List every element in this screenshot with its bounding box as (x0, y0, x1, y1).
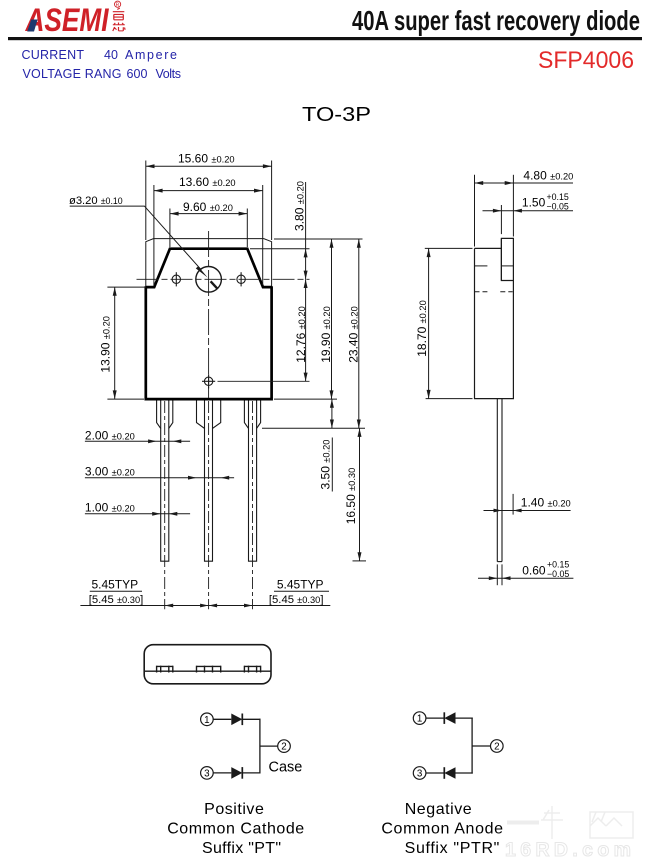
caption right (381, 801, 503, 857)
logo chinese chars (113, 8, 125, 31)
svg-text:2.00 ±0.20: 2.00 ±0.20 (85, 428, 135, 442)
diode D4 (443, 767, 445, 779)
svg-text:Ampere: Ampere (125, 48, 177, 62)
middle leg (197, 401, 221, 562)
side body outline (475, 238, 514, 398)
svg-text:12.76 ±0.20: 12.76 ±0.20 (294, 306, 308, 363)
logo ASEMI (25, 1, 121, 38)
body top extension right (250, 248, 310, 250)
shoulder extension line right (262, 427, 365, 429)
svg-text:R: R (116, 3, 120, 9)
svg-text:13.90 ±0.20: 13.90 ±0.20 (98, 316, 112, 373)
header rule (8, 37, 642, 40)
svg-text:2: 2 (494, 742, 499, 753)
dim 3.50 (331, 399, 333, 428)
watermark (507, 806, 633, 839)
caption left (167, 801, 304, 857)
svg-text:16RD.com: 16RD.com (505, 839, 633, 861)
mounting hole (196, 267, 222, 293)
svg-text:18.70 ±0.20: 18.70 ±0.20 (415, 300, 429, 357)
diode D1 (231, 714, 242, 726)
dim 5.45 pitch line (80, 605, 330, 607)
diode D2 (231, 767, 242, 779)
svg-text:[5.45 ±0.30]: [5.45 ±0.30] (269, 594, 324, 606)
leg tip extension right (353, 560, 367, 562)
svg-text:40A super fast recovery diode: 40A super fast recovery diode (352, 5, 640, 36)
wire D1 to bus (242, 718, 260, 720)
right leg (244, 401, 260, 562)
dim 1.40 (512, 494, 514, 515)
wire D4 to bus (456, 772, 473, 774)
dia label leader (70, 206, 218, 289)
svg-text:−0.05: −0.05 (547, 201, 569, 211)
dim 4.80 (475, 175, 574, 247)
svg-text:1: 1 (417, 714, 422, 725)
wire D2 to bus (242, 772, 260, 774)
svg-text:3: 3 (204, 768, 210, 779)
pin 3 circle (201, 767, 214, 780)
svg-text:3.00 ±0.20: 3.00 ±0.20 (85, 465, 135, 479)
svg-text:SFP4006: SFP4006 (538, 47, 634, 74)
dim 15.60 (146, 161, 272, 241)
dim 1.50 (500, 205, 502, 234)
pin 1 circle (413, 712, 426, 725)
svg-text:Positive: Positive (204, 801, 264, 818)
dim 13.90 left (107, 287, 145, 399)
svg-text:2: 2 (281, 742, 286, 753)
svg-text:−0.05: −0.05 (547, 569, 569, 579)
svg-text:9.60 ±0.20: 9.60 ±0.20 (183, 200, 233, 214)
svg-text:Negative: Negative (405, 801, 472, 818)
svg-text:Suffix "PTR": Suffix "PTR" (405, 840, 500, 857)
svg-text:TO-3P: TO-3P (302, 103, 371, 126)
svg-text:Suffix "PT": Suffix "PT" (202, 840, 281, 857)
current line (22, 48, 182, 81)
dim 0.60 (478, 564, 573, 585)
svg-text:0.60: 0.60 (522, 564, 546, 578)
dim 13.60 (154, 185, 263, 285)
wire pin1 to D1 (213, 718, 231, 720)
dim 3.80 (305, 182, 307, 279)
svg-text:1.40 ±0.20: 1.40 ±0.20 (521, 495, 571, 509)
bottom view pin 1 pad (157, 666, 173, 673)
dim 16.50 (359, 428, 361, 561)
svg-text:3.80 ±0.20: 3.80 ±0.20 (293, 181, 307, 231)
svg-text:CURRENT: CURRENT (22, 48, 85, 62)
svg-text:VOLTAGE RANG: VOLTAGE RANG (23, 67, 122, 81)
svg-text:1.50: 1.50 (522, 196, 546, 210)
svg-text:4.80 ±0.20: 4.80 ±0.20 (523, 169, 573, 183)
side internal lines (475, 266, 514, 292)
svg-text:+0.15: +0.15 (547, 559, 569, 569)
dim 12.76 (305, 279, 307, 381)
svg-text:600: 600 (127, 67, 148, 81)
svg-text:16.50 ±0.30: 16.50 ±0.30 (344, 468, 358, 525)
wire bus to pin2 (472, 745, 490, 747)
vertical centerline (208, 231, 210, 398)
svg-text:Volts: Volts (156, 67, 182, 81)
svg-text:40: 40 (104, 48, 118, 62)
diode D3 (443, 712, 445, 724)
body bottom extension right (274, 398, 337, 400)
svg-text:3.50 ±0.20: 3.50 ±0.20 (319, 440, 333, 490)
right pip hole (237, 272, 245, 286)
body outline thick (146, 249, 272, 399)
svg-text:1: 1 (204, 715, 209, 726)
anode bus (471, 718, 473, 774)
svg-text:23.40 ±0.20: 23.40 ±0.20 (346, 306, 360, 363)
svg-text:19.90 ±0.20: 19.90 ±0.20 (319, 306, 333, 363)
svg-text:Case: Case (269, 759, 303, 775)
svg-text:+0.15: +0.15 (547, 192, 569, 202)
left pip hole (172, 272, 180, 286)
wire pin1 to D3 (426, 717, 444, 719)
svg-text:1.00 ±0.20: 1.00 ±0.20 (85, 501, 135, 515)
pin 1 circle (201, 713, 214, 726)
svg-text:ø3.20 ±0.10: ø3.20 ±0.10 (69, 195, 123, 207)
cathode bus (259, 719, 261, 774)
pin 3 circle (413, 767, 426, 780)
svg-text:13.60 ±0.20: 13.60 ±0.20 (179, 175, 236, 189)
bottom view pin 3 pad (244, 666, 260, 673)
svg-text:15.60 ±0.20: 15.60 ±0.20 (178, 151, 235, 165)
pin 2 circle (491, 740, 504, 753)
svg-text:5.45TYP: 5.45TYP (277, 578, 324, 592)
dim 23.40 (358, 239, 360, 428)
svg-text:[5.45 ±0.30]: [5.45 ±0.30] (89, 594, 144, 606)
flange top extension line right (274, 238, 363, 240)
wire pin3 to D2 (213, 772, 231, 774)
horizontal centerline (137, 278, 310, 280)
wire bus to pin2 (260, 745, 278, 747)
svg-text:3: 3 (417, 769, 423, 780)
svg-text:5.45TYP: 5.45TYP (91, 578, 138, 592)
wire pin3 to D4 (426, 772, 444, 774)
dim 19.90 (331, 239, 333, 399)
side lead (497, 399, 502, 562)
bottom view pin 2 pad (197, 666, 221, 673)
left leg (157, 401, 173, 562)
svg-text:Common Cathode: Common Cathode (167, 821, 304, 838)
bottom pip hole (202, 374, 310, 388)
wire D3 to bus (456, 717, 473, 719)
dim 9.60 (170, 209, 247, 248)
svg-text:Common Anode: Common Anode (381, 821, 503, 838)
pin 2 circle (278, 740, 291, 753)
dim 18.70 (425, 248, 473, 398)
flange outline thin (146, 239, 272, 288)
